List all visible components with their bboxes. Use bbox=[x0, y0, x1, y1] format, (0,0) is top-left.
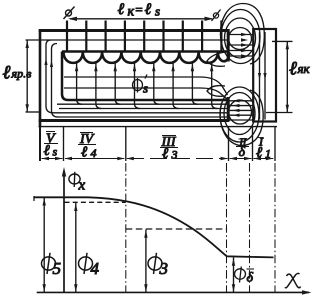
svg-text:s: s bbox=[155, 4, 160, 19]
svg-text:як: як bbox=[297, 61, 311, 76]
winding wire W9 bbox=[220, 21, 222, 53]
flux line top gap y50 bbox=[230, 50, 253, 52]
flux level top tick bbox=[33, 196, 35, 201]
fringe loop top 4 (outer, open at bottom-left) bbox=[220, 4, 264, 65]
gap arrowheads top (pointing right) bbox=[241, 33, 248, 36]
dimension l_yak (armature height, right) bbox=[286, 41, 288, 112]
x axis bbox=[37, 291, 309, 293]
dim arrows cell II bbox=[230, 158, 252, 160]
tooth flux line 2 bbox=[96, 62, 102, 109]
tooth flux line 6 bbox=[173, 62, 179, 109]
divider III|II bbox=[228, 127, 230, 161]
label Phi3 bbox=[148, 253, 162, 274]
dash-dot vertical x=249.5 bbox=[249, 163, 251, 292]
x axis arrowhead bbox=[302, 290, 312, 294]
svg-text:к: к bbox=[128, 5, 135, 20]
Phi3 dimension arrow bbox=[145, 230, 147, 293]
flux line top gap y55 bbox=[230, 55, 253, 57]
flux curve bbox=[34, 197, 274, 257]
winding turn scallop 6 bbox=[160, 52, 179, 63]
bottom bar flux line y104.2 bbox=[57, 103, 228, 105]
bottom gap crossing line y115.2 bbox=[230, 114, 253, 116]
flux line top gap y34 bbox=[230, 34, 253, 36]
winding turn scallop 3 bbox=[102, 52, 121, 63]
fringe loop top 1 (inner oval) bbox=[229, 28, 252, 50]
fringe loop top 2 bbox=[225, 18, 256, 58]
bottom bar flux line y117 bbox=[57, 116, 228, 118]
dashed level Phi4 bbox=[65, 201, 126, 203]
label Phi_delta bbox=[235, 267, 246, 283]
svg-text:s: s bbox=[143, 81, 148, 96]
left window flux loop B vertical bbox=[52, 44, 59, 118]
fringe loop top 3 bbox=[221, 10, 260, 64]
svg-text:4: 4 bbox=[91, 146, 97, 160]
tooth flux line 8 bbox=[212, 62, 218, 109]
y axis arrowhead bbox=[62, 167, 66, 177]
bottom bar flux line y112.8 bbox=[53, 112, 228, 114]
divider I right bbox=[274, 127, 276, 161]
svg-text:ℓ: ℓ bbox=[3, 63, 11, 84]
svg-text:3: 3 bbox=[159, 259, 169, 278]
gap arrowheads bottom (pointing left) bbox=[233, 99, 240, 102]
dimension arrowhead right bbox=[205, 17, 214, 21]
divider V|IV bbox=[63, 127, 65, 161]
leakage flux label Phi's bbox=[133, 75, 148, 93]
tooth flux line 7 bbox=[192, 62, 198, 105]
label Phi4 bbox=[79, 253, 93, 274]
Phi5 dimension arrow bbox=[43, 197, 45, 292]
divider II|I bbox=[252, 127, 254, 161]
flux line top gap y44.5 bbox=[230, 44, 253, 46]
svg-text:δ: δ bbox=[247, 271, 254, 286]
armature flux arrows bbox=[258, 73, 261, 80]
winding turn scallop 2 bbox=[83, 52, 102, 63]
tooth flux line 4 bbox=[135, 62, 141, 109]
svg-text:s: s bbox=[53, 145, 58, 159]
winding turn scallop 1 bbox=[64, 52, 83, 63]
window horizontal flux line y88 bbox=[64, 88, 227, 99]
extension tick top right bbox=[272, 40, 293, 42]
x axis label bbox=[285, 273, 301, 287]
fringe arcs inside window near top pole bbox=[207, 52, 225, 66]
tooth flux line 5 bbox=[154, 62, 160, 105]
divider IV|III bbox=[125, 127, 127, 161]
dash-dot vertical x=274.3 bbox=[274, 163, 276, 292]
stator top pole end face bbox=[227, 29, 230, 62]
winding turn scallop 5 bbox=[141, 52, 160, 63]
flux arrow on loop B bbox=[50, 60, 53, 67]
dashed level Phi3 bbox=[126, 228, 227, 230]
svg-text:ℓ: ℓ bbox=[44, 143, 50, 159]
svg-text:х: х bbox=[78, 178, 86, 194]
winding turn scallop 7 bbox=[179, 52, 198, 63]
stator core top bar thick line bbox=[39, 29, 230, 32]
left sling circle marker bbox=[66, 10, 72, 16]
label Phi5 bbox=[42, 253, 56, 274]
dimension l_yar_v (left yoke height) bbox=[26, 40, 28, 112]
fringe loop bottom 2 bbox=[224, 93, 255, 135]
Phi_delta dimension arrow bbox=[233, 258, 235, 293]
svg-text:ℓ: ℓ bbox=[289, 59, 297, 80]
winding wire W8 bbox=[201, 21, 203, 53]
winding wire W1 bbox=[66, 21, 68, 53]
fringe loop bottom 1 (inner oval) bbox=[229, 100, 252, 124]
bottom gap crossing line y110.4 bbox=[230, 109, 253, 111]
winding wire W2 bbox=[85, 21, 87, 53]
Phi4 dimension arrow bbox=[75, 203, 77, 293]
svg-text:=: = bbox=[135, 2, 144, 17]
table top line bbox=[39, 126, 278, 128]
svg-text:яр.в: яр.в bbox=[11, 67, 32, 81]
dim arrows cell V bbox=[42, 158, 63, 160]
winding wire W7 bbox=[182, 21, 184, 53]
bottom gap crossing line y120 bbox=[230, 119, 253, 121]
flux arrow on loop A bbox=[44, 58, 47, 65]
extension tick bottom bbox=[26, 111, 41, 113]
fringe arcs inside window near bottom pole bbox=[207, 86, 225, 97]
winding turn scallop 9 (end) bbox=[218, 52, 229, 61]
winding turn scallop 8 bbox=[199, 52, 218, 63]
dim arrows cell III bbox=[127, 158, 228, 160]
dim arrows cell IV bbox=[65, 158, 124, 160]
stator bottom pole end face bbox=[227, 97, 230, 122]
svg-text:ℓ: ℓ bbox=[162, 146, 168, 162]
dash-dot vertical x=125.8 bbox=[125, 163, 127, 292]
bottom bar flux line y108.5 bbox=[59, 108, 228, 110]
window horizontal flux line y77 bbox=[64, 77, 228, 95]
fringe loop bottom 3 bbox=[220, 87, 259, 142]
y axis bbox=[63, 172, 65, 292]
coil span dimension line lk=ls bbox=[70, 18, 212, 20]
coil inner rectangle (left + bottom + top scallop line) bbox=[62, 52, 229, 101]
flux line inside top bar (long, with dimension tick) bbox=[26, 39, 229, 41]
armature internal flux line 1 bbox=[259, 32, 261, 120]
armature internal flux line 2 bbox=[264, 32, 266, 120]
table left edge bbox=[39, 126, 41, 162]
right sling circle marker bbox=[213, 13, 218, 18]
svg-text:5: 5 bbox=[53, 259, 62, 278]
dimension arrowhead left bbox=[68, 17, 77, 21]
stator core outer bottom edge bbox=[39, 119, 229, 122]
winding wire W4 bbox=[124, 21, 126, 53]
winding turn scallop 4 bbox=[121, 52, 140, 63]
dim arrows cell I bbox=[254, 158, 274, 160]
tooth flux line 3 bbox=[115, 62, 121, 105]
y axis label Phi_x bbox=[69, 172, 80, 187]
winding wire W3 bbox=[104, 21, 106, 53]
svg-text:ℓ: ℓ bbox=[145, 1, 152, 18]
svg-text:3: 3 bbox=[171, 148, 178, 162]
left window flux loop A vertical bbox=[46, 40, 53, 113]
fringe loop bottom 4 (outer, open) bbox=[220, 90, 263, 146]
stator core outer left edge bbox=[39, 30, 42, 127]
bottom gap crossing line y105.6 bbox=[230, 105, 253, 107]
armature bar bbox=[253, 29, 276, 122]
tooth flux line 1 bbox=[77, 62, 83, 105]
dash-dot vertical x=226.5 bbox=[226, 163, 228, 292]
extension tick bottom right bbox=[266, 112, 293, 114]
svg-text:4: 4 bbox=[91, 259, 100, 278]
bottom gap crossing line y100.8 bbox=[230, 100, 253, 102]
winding wire W5 bbox=[143, 21, 145, 53]
winding wire W6 bbox=[162, 21, 164, 53]
svg-text:ℓ: ℓ bbox=[118, 1, 125, 18]
